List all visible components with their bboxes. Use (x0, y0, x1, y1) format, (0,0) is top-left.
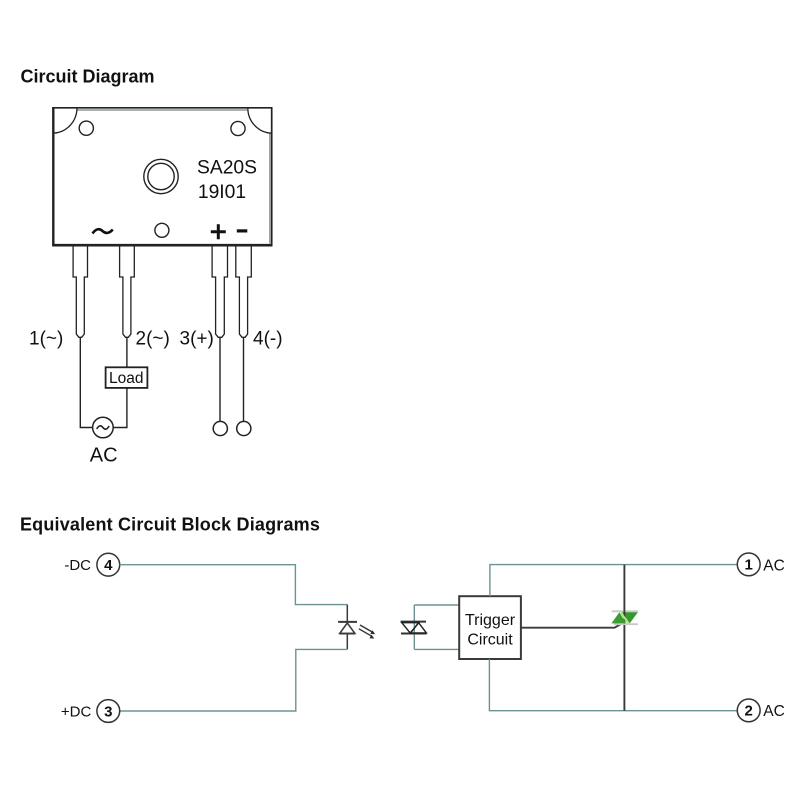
diac vertical wire (413, 605, 415, 649)
terminal 3 circle (97, 700, 120, 723)
svg-text:19I01: 19I01 (198, 182, 246, 203)
svg-text:2: 2 (745, 703, 753, 720)
package corner arc top-left (53, 108, 77, 133)
bottom index hole (155, 223, 169, 237)
triac main vertical wire (623, 565, 625, 711)
triac Q1 (611, 610, 638, 624)
mounting hole top-left (79, 121, 93, 135)
LED D1 (338, 622, 357, 634)
pin 4 lead (236, 246, 252, 337)
wire trigger box top to AC terminal 1 (490, 565, 737, 597)
wire pin4 to open terminal (243, 337, 245, 421)
AC terminal 1 circle (737, 553, 760, 576)
wire segment LED cathode black (346, 605, 348, 622)
svg-text:4: 4 (104, 557, 113, 574)
svg-text:3(+): 3(+) (180, 329, 214, 350)
AC source V1 (93, 417, 114, 438)
wire diac to trigger box bottom (414, 648, 459, 650)
svg-text:+DC: +DC (61, 703, 92, 720)
wire diac to trigger box top (414, 604, 459, 606)
svg-text:1(~): 1(~) (29, 329, 63, 350)
pin 3 lead (212, 246, 227, 337)
svg-text:1: 1 (745, 557, 753, 574)
svg-text:4(-): 4(-) (253, 329, 283, 350)
svg-text:2(~): 2(~) (136, 329, 170, 350)
pin 1 lead (73, 246, 87, 337)
wire segment LED anode black (346, 634, 348, 650)
package corner arc top-right (248, 108, 272, 133)
wire pin2 down to load (126, 337, 128, 367)
wire terminal4 to LED top (120, 565, 348, 605)
pin 4 open terminal circle (237, 421, 251, 435)
terminal 4 circle (97, 553, 120, 576)
svg-text:AC: AC (90, 445, 118, 467)
wire pin1 down to AC source (80, 337, 92, 427)
package U1 body outline (52, 107, 272, 246)
pin 2 lead (120, 246, 135, 337)
LED light emission arrows (359, 625, 375, 639)
minus terminal mark on package (237, 229, 248, 232)
svg-text:-DC: -DC (64, 557, 91, 574)
trigger circuit label (465, 612, 516, 648)
svg-text:3: 3 (104, 703, 112, 720)
diac D2 (401, 622, 427, 634)
load box (106, 367, 148, 388)
AC terminal mark ~ on package (93, 229, 113, 233)
gate wire trigger to triac (521, 624, 621, 627)
svg-text:Equivalent Circuit Block Diagr: Equivalent Circuit Block Diagrams (20, 515, 320, 535)
trigger circuit box (459, 596, 521, 659)
pin 3 open terminal circle (213, 421, 227, 435)
wire load to AC source (113, 388, 127, 428)
svg-text:AC: AC (763, 703, 785, 720)
mounting hole top-right (231, 121, 245, 135)
plus terminal mark on package (211, 224, 226, 239)
AC terminal 2 circle (737, 699, 760, 722)
wire pin3 to open terminal (219, 337, 221, 421)
wire LED bottom to terminal3 (120, 649, 348, 711)
svg-text:Load: Load (109, 370, 143, 387)
svg-text:SA20S: SA20S (197, 158, 257, 179)
wire trigger box bottom to AC terminal 2 (489, 659, 737, 711)
svg-text:Trigger: Trigger (465, 612, 516, 629)
svg-text:Circuit: Circuit (467, 632, 513, 649)
svg-text:Circuit Diagram: Circuit Diagram (21, 67, 155, 87)
svg-text:AC: AC (763, 557, 785, 574)
center mounting hole (144, 159, 178, 193)
